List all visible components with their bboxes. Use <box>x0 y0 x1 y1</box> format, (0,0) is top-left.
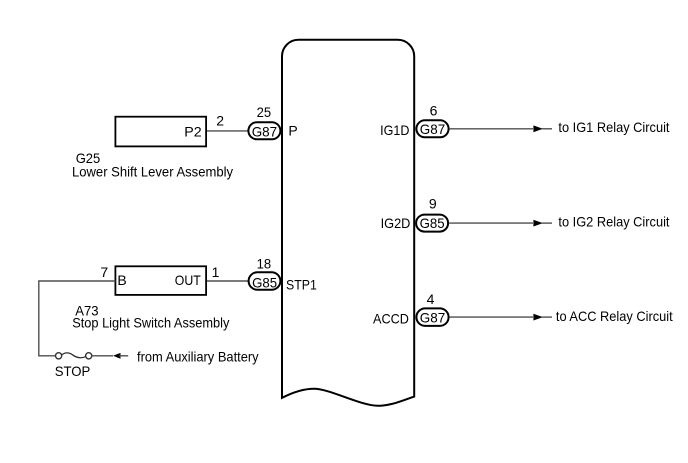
arrow to IG2 relay <box>533 220 543 227</box>
connector G87 <box>248 122 280 139</box>
svg-text:STOP: STOP <box>55 363 91 379</box>
svg-text:G85: G85 <box>252 274 277 290</box>
wire <box>207 280 248 282</box>
arrow to ACC relay <box>533 314 543 321</box>
wire <box>541 316 552 318</box>
svg-text:G87: G87 <box>420 121 446 137</box>
svg-text:P2: P2 <box>184 124 202 140</box>
svg-text:7: 7 <box>100 264 108 280</box>
wire <box>119 355 128 357</box>
svg-text:18: 18 <box>257 256 272 272</box>
svg-text:STP1: STP1 <box>286 276 317 292</box>
wire <box>541 222 552 224</box>
wire <box>207 130 248 132</box>
svg-text:IG2D: IG2D <box>381 215 411 231</box>
svg-text:25: 25 <box>257 104 272 120</box>
svg-text:ACCD: ACCD <box>373 310 409 326</box>
svg-text:B: B <box>117 272 126 288</box>
svg-text:Stop Light Switch Assembly: Stop Light Switch Assembly <box>72 315 229 331</box>
svg-text:4: 4 <box>427 291 435 307</box>
wire <box>450 128 533 130</box>
svg-text:Lower Shift Lever Assembly: Lower Shift Lever Assembly <box>72 164 233 180</box>
svg-text:9: 9 <box>429 195 437 211</box>
connector box A73 <box>115 266 206 295</box>
wire <box>92 355 113 357</box>
svg-text:P: P <box>288 123 297 139</box>
svg-text:IG1D: IG1D <box>380 122 409 138</box>
svg-text:G85: G85 <box>420 215 445 231</box>
wire <box>39 281 116 356</box>
connector G85 <box>416 215 448 232</box>
wire <box>450 316 533 318</box>
switch STOP <box>56 353 92 359</box>
svg-text:2: 2 <box>216 112 224 128</box>
svg-text:to IG1 Relay Circuit: to IG1 Relay Circuit <box>558 119 669 135</box>
connector G87 <box>416 120 448 137</box>
wire <box>449 222 533 224</box>
svg-text:G87: G87 <box>252 124 278 140</box>
connector G85 <box>249 272 281 290</box>
op-amp U1 <box>282 40 414 406</box>
arrow to IG1 relay <box>533 125 543 132</box>
svg-text:G87: G87 <box>420 309 446 325</box>
connector G87 <box>416 308 448 326</box>
arrow from auxiliary battery <box>113 353 121 359</box>
wire <box>541 128 552 130</box>
svg-text:6: 6 <box>430 103 438 119</box>
svg-text:OUT: OUT <box>175 272 201 288</box>
connector box P2 <box>115 117 206 147</box>
svg-text:from Auxiliary Battery: from Auxiliary Battery <box>137 348 259 364</box>
svg-text:to IG2 Relay Circuit: to IG2 Relay Circuit <box>558 214 669 230</box>
svg-text:to ACC Relay Circuit: to ACC Relay Circuit <box>556 308 673 324</box>
svg-text:1: 1 <box>212 264 220 280</box>
